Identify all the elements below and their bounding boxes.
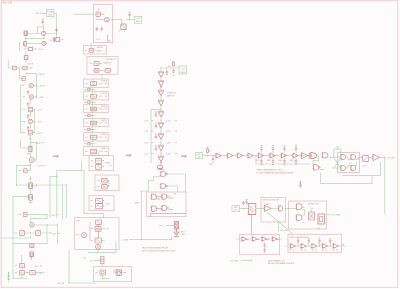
- lamp LP1: [157, 165, 163, 170]
- wire: [313, 156, 319, 164]
- regulator module PS3: [179, 66, 187, 74]
- wire: [21, 140, 29, 148]
- inverter B2: [158, 123, 164, 129]
- wire: [285, 245, 344, 247]
- wire: [81, 162, 83, 171]
- ic U6: [86, 135, 97, 139]
- wire: [102, 275, 103, 279]
- module CTRL t2: [113, 272, 123, 274]
- transistor Q10: [30, 223, 35, 228]
- wire: [311, 210, 313, 212]
- wire: [97, 225, 99, 227]
- ic U11: [97, 184, 107, 189]
- capacitor C7: [96, 27, 103, 31]
- preamp P2: [251, 237, 259, 242]
- wire: [103, 206, 105, 207]
- wire: [157, 208, 163, 210]
- label +5Vd: [317, 228, 321, 230]
- driver T5: [372, 154, 380, 160]
- wire: [242, 260, 253, 261]
- wire: [103, 214, 105, 218]
- resistor R6: [22, 77, 25, 81]
- module M1 box: [84, 79, 109, 88]
- wire: [25, 272, 30, 273]
- diode D7: [15, 264, 24, 268]
- wire: [66, 185, 68, 218]
- module M4 title: [100, 120, 108, 122]
- gate G6: [160, 184, 167, 189]
- transistor Q12: [76, 233, 87, 238]
- wire: [298, 244, 299, 247]
- wire: [26, 73, 37, 74]
- wire: [89, 222, 91, 240]
- wire: [46, 225, 48, 244]
- ic U12: [91, 198, 103, 203]
- note mute 2: [142, 250, 176, 253]
- amp S2: [269, 153, 275, 158]
- capacitor C5: [27, 114, 29, 118]
- wire: [36, 33, 42, 35]
- label TX r1: [104, 61, 113, 64]
- wire: [88, 242, 116, 253]
- wire: [90, 143, 95, 145]
- wire: [12, 197, 14, 244]
- wire: [30, 189, 32, 195]
- wire: [17, 68, 23, 69]
- mic module MIC1: [196, 153, 203, 159]
- amp S4: [292, 153, 298, 158]
- resistor R4: [12, 66, 16, 70]
- wire: [384, 157, 386, 214]
- wire: [332, 167, 341, 169]
- wire: [320, 169, 323, 170]
- wire: [169, 198, 173, 210]
- inverter A1: [158, 72, 164, 78]
- wire: [27, 151, 31, 157]
- module M6 title: [101, 148, 107, 150]
- transistor Q7: [30, 158, 35, 163]
- module M5 box: [84, 133, 109, 141]
- note mute 1: [142, 247, 169, 250]
- transistor Q6: [21, 119, 33, 123]
- wire: [69, 283, 96, 284]
- label +5Va: [105, 229, 109, 231]
- label +5V_RE: [57, 283, 65, 285]
- wire: [84, 213, 104, 215]
- transistor Q1: [24, 31, 28, 36]
- opto OC1: [174, 222, 178, 229]
- module M2 value: [99, 96, 102, 98]
- wire: [160, 163, 162, 164]
- regulator module PS1: [47, 10, 55, 17]
- wire: [25, 36, 27, 42]
- wire: [28, 33, 36, 35]
- label RX t1: [97, 47, 104, 49]
- wire: [346, 157, 351, 159]
- label +15 R a: [36, 110, 42, 112]
- capacitor C1: [42, 19, 44, 24]
- wire: [38, 27, 44, 34]
- logic box LB1: [147, 192, 186, 217]
- nand G16: [340, 166, 346, 171]
- capacitor CF1: [297, 239, 299, 244]
- connector J2: [248, 204, 256, 215]
- label af2: [300, 250, 305, 252]
- resistor R5: [23, 66, 27, 70]
- inverter B3: [158, 134, 164, 140]
- resistor R3: [24, 48, 37, 51]
- module M3 box: [84, 105, 109, 113]
- note check 2: [256, 172, 294, 175]
- connector J1: [30, 252, 33, 257]
- wire: [29, 124, 31, 128]
- mic module MIC2: [232, 206, 240, 212]
- wire: [330, 244, 331, 247]
- label +5Vb: [89, 260, 93, 262]
- inverter B1: [158, 111, 164, 117]
- wire: [130, 239, 172, 240]
- wire: [296, 155, 305, 156]
- label ctrl: [310, 207, 314, 210]
- wire: [8, 67, 12, 69]
- wire: [121, 20, 123, 24]
- ic U3: [86, 94, 97, 98]
- capacitor CP4: [155, 145, 157, 151]
- label zc title: [263, 199, 281, 201]
- net label row 2: [144, 131, 176, 134]
- gate G13: [322, 153, 328, 158]
- opamp F2: [300, 244, 306, 249]
- label PTT2: [336, 147, 341, 149]
- wire: [122, 272, 126, 274]
- wire: [102, 160, 104, 161]
- wire: [41, 233, 52, 234]
- capacitor CF2: [308, 239, 310, 244]
- wire: [31, 257, 33, 260]
- net label row 4: [144, 153, 176, 156]
- capacitor CU3: [283, 145, 285, 150]
- label RXg: [83, 258, 86, 260]
- diode D2: [21, 107, 32, 112]
- wire: [13, 243, 47, 245]
- wire: [272, 151, 274, 159]
- wire: [90, 43, 92, 48]
- capacitor CS1: [84, 88, 93, 91]
- ic U1: [94, 5, 113, 43]
- wire: [358, 156, 362, 158]
- label mic r: [208, 150, 211, 152]
- wire: [33, 109, 36, 110]
- relay K2: [36, 231, 41, 236]
- wire: [33, 85, 37, 86]
- wire: [90, 115, 95, 117]
- ic U18: [318, 214, 324, 224]
- wire: [33, 121, 36, 122]
- wire: [101, 74, 103, 79]
- capacitor C4: [27, 102, 29, 106]
- capacitor CU2: [272, 145, 274, 150]
- audio filter box: [288, 234, 342, 252]
- latch cross: [322, 149, 341, 170]
- diode D8: [15, 270, 24, 274]
- wire: [97, 95, 107, 97]
- capacitor CS3: [84, 114, 93, 117]
- opamp F4: [322, 244, 328, 249]
- wire: [12, 244, 14, 279]
- transformer T1: [42, 31, 46, 35]
- label 4093 a: [174, 194, 177, 196]
- wire: [97, 136, 107, 138]
- wire: [284, 151, 286, 159]
- wire: [330, 157, 331, 158]
- gate G18: [278, 206, 283, 211]
- ic U7: [86, 149, 97, 154]
- label U1 pins: [96, 39, 100, 41]
- wire: [25, 233, 36, 234]
- wire: [34, 225, 58, 226]
- capacitor CP2: [155, 122, 157, 128]
- wire: [261, 151, 263, 159]
- wire: [33, 184, 37, 187]
- preamp P4: [271, 237, 279, 242]
- mosfet Q9: [29, 195, 33, 201]
- wire: [256, 208, 265, 209]
- wire: [13, 278, 28, 279]
- logic box LB2: [151, 214, 186, 217]
- label FB3: [279, 160, 282, 162]
- wire: [240, 207, 249, 209]
- relay K1: [14, 231, 25, 236]
- module RX box: [84, 46, 107, 54]
- wire: [92, 79, 94, 80]
- wire: [243, 155, 248, 157]
- label 44R: [52, 233, 60, 235]
- wire: [99, 69, 105, 71]
- wire: [16, 166, 18, 185]
- resistor R8: [207, 147, 209, 153]
- mosfet Q8: [29, 183, 33, 189]
- wire: [166, 225, 175, 227]
- label det title: [308, 204, 319, 206]
- wire: [27, 166, 30, 171]
- oscillator G2: [94, 69, 99, 73]
- note check 1: [256, 169, 283, 172]
- wire: [233, 155, 238, 157]
- module M5 title: [100, 134, 108, 136]
- wire: [54, 13, 57, 33]
- ic U13: [91, 204, 103, 209]
- capacitor C6: [27, 126, 29, 130]
- wire: [236, 238, 282, 240]
- opamp F5: [332, 244, 338, 249]
- diode D4: [18, 169, 28, 173]
- wire: [161, 68, 162, 111]
- net label row 3: [144, 142, 176, 145]
- label LED a: [181, 231, 186, 233]
- wire: [92, 88, 94, 147]
- amp S5: [300, 153, 309, 159]
- label +15V k: [38, 166, 45, 168]
- xor G11: [309, 153, 316, 159]
- wire: [279, 222, 288, 231]
- wire: [16, 185, 29, 186]
- wire: [34, 97, 37, 98]
- label J2 c: [250, 211, 255, 213]
- capacitor CS4: [84, 128, 93, 131]
- note filter 1: [268, 260, 285, 263]
- wire: [74, 13, 94, 15]
- label RF a: [35, 266, 42, 268]
- nand G15: [350, 155, 356, 160]
- label +15V j: [36, 143, 44, 145]
- inverter A3: [158, 90, 164, 96]
- module TONE box: [89, 156, 114, 171]
- preamp P3: [261, 237, 269, 242]
- capacitor C11: [212, 157, 214, 163]
- wire: [30, 200, 32, 203]
- amp T3: [237, 153, 243, 158]
- module M2 title: [100, 93, 108, 95]
- module D2 text: [105, 203, 110, 205]
- wire: [36, 185, 67, 186]
- wire: [176, 229, 178, 232]
- transistor Q4: [22, 84, 34, 88]
- wire: [271, 207, 279, 209]
- wire: [97, 231, 99, 238]
- wire: [30, 162, 31, 166]
- preamp P1: [241, 237, 249, 242]
- amp box: [240, 235, 280, 255]
- wire: [119, 30, 125, 32]
- transistor Q5: [23, 95, 33, 99]
- wire: [21, 85, 25, 133]
- label AC input: [36, 12, 44, 15]
- relay K6: [309, 212, 315, 220]
- wire: [56, 34, 58, 38]
- wire: [29, 112, 31, 116]
- diode D1: [24, 56, 28, 60]
- capacitor C12: [242, 201, 244, 205]
- opamp F1: [289, 244, 295, 249]
- label FB4: [290, 160, 293, 162]
- wire: [308, 244, 309, 247]
- capacitor C3: [27, 90, 29, 94]
- wire: [29, 99, 31, 104]
- label FB1: [256, 160, 259, 162]
- comparator CMP1: [264, 205, 272, 211]
- wire: [109, 19, 122, 20]
- module RX1 box: [75, 218, 119, 250]
- wire: [284, 208, 296, 209]
- wire: [356, 157, 359, 159]
- wire: [321, 173, 372, 184]
- wire: [36, 142, 37, 160]
- wire: [334, 156, 341, 158]
- note ALL resistors: [3, 1, 13, 4]
- wire: [150, 110, 152, 163]
- wire: [94, 259, 101, 261]
- wire: [30, 142, 35, 144]
- capacitor C2: [55, 28, 57, 32]
- wire: [346, 162, 357, 168]
- transistor Q3: [24, 42, 27, 47]
- nand G20: [296, 215, 305, 223]
- oscillator G4: [96, 220, 102, 225]
- wire: [142, 190, 149, 192]
- wire: [30, 141, 31, 146]
- capacitor CD1: [260, 159, 262, 164]
- relay K5: [363, 156, 369, 162]
- wire: [203, 155, 216, 156]
- label +5V_REF2: [230, 261, 240, 263]
- wire: [324, 218, 326, 220]
- label +5Vc: [332, 215, 342, 217]
- wire: [27, 67, 32, 69]
- wire: [96, 19, 104, 21]
- label af title: [290, 236, 309, 239]
- nand G8: [161, 194, 168, 199]
- label +15V m: [51, 215, 59, 217]
- capacitor C10: [172, 69, 174, 75]
- wire: [97, 122, 107, 124]
- wire: [43, 35, 45, 38]
- capacitor CU1: [260, 145, 262, 150]
- wire mic down: [251, 215, 253, 235]
- amp T2: [227, 153, 233, 158]
- wire: [2, 235, 31, 238]
- label +15V 5: [39, 97, 44, 99]
- label osc a: [167, 93, 176, 95]
- diode D5: [17, 213, 27, 217]
- wire: [296, 209, 305, 217]
- regulator module PS2: [134, 16, 141, 23]
- wire: [98, 152, 100, 156]
- diode D6: [30, 244, 34, 248]
- wire: [148, 177, 160, 191]
- wire: [8, 272, 10, 273]
- amp S3: [280, 153, 286, 158]
- wire: [101, 264, 103, 267]
- capacitor C14: [264, 243, 266, 252]
- label +15V 3: [38, 74, 45, 76]
- wire: [103, 200, 105, 201]
- label +15V: [38, 49, 44, 51]
- label lm311: [265, 204, 270, 206]
- label RLY: [363, 166, 367, 168]
- crystal X2: [85, 48, 93, 52]
- zero cross box: [261, 198, 286, 222]
- wire: [222, 155, 228, 157]
- wire: [157, 197, 163, 199]
- wire: [102, 166, 104, 167]
- transistor Q2: [42, 41, 46, 45]
- wire: [185, 174, 187, 192]
- capacitor C13: [246, 200, 248, 205]
- ic U15: [91, 238, 102, 243]
- wire: [101, 228, 105, 230]
- module M1 title: [100, 80, 107, 83]
- module D2 box: [89, 196, 114, 211]
- inverter B4: [158, 145, 164, 151]
- label PTT1: [159, 226, 164, 228]
- wire: [295, 151, 297, 159]
- wire: [21, 255, 23, 264]
- nand G7: [151, 194, 157, 199]
- amp T1: [215, 153, 221, 158]
- module M3 value: [99, 109, 103, 111]
- nand G17: [350, 166, 356, 171]
- wire: [43, 25, 45, 32]
